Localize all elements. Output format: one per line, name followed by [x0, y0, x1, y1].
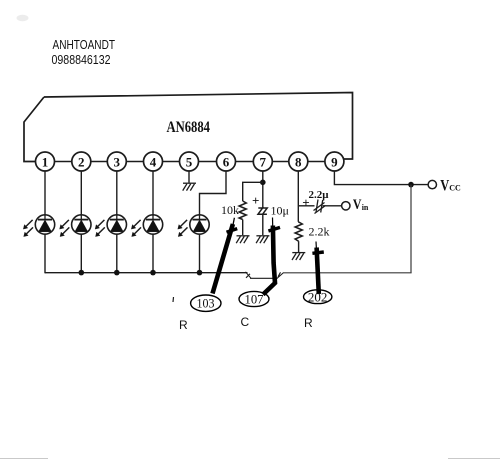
LED D4 emission arrows [131, 220, 141, 237]
LED D3 [107, 215, 126, 234]
ground under pin 5 [183, 183, 196, 190]
wire LED D1 to bus [44, 234, 46, 273]
node junction on pin7 wire [260, 180, 266, 186]
resistor R1 10k [239, 201, 246, 220]
svg-text:+: + [252, 193, 259, 208]
pin 8 [289, 152, 308, 171]
svg-text:103: 103 [197, 296, 215, 310]
pin 4 [144, 152, 163, 171]
svg-text:7: 7 [260, 155, 267, 170]
tick mark left of 103 [172, 297, 175, 302]
annotation arrow to 202 [312, 242, 323, 295]
svg-text:C: C [241, 315, 250, 329]
scan artifact line bottom right [448, 458, 500, 460]
pin 6 [217, 152, 236, 171]
IC U1 AN6884 outline [24, 93, 353, 162]
wire pin2 to LED D2 [80, 171, 82, 216]
svg-text:4: 4 [150, 155, 157, 170]
wire pin1 to LED D1 [44, 171, 46, 216]
wire LED D4 to bus [152, 234, 154, 272]
annotation ellipse 103 [191, 295, 221, 311]
svg-text:202: 202 [308, 291, 328, 305]
svg-text:+: + [302, 195, 309, 210]
ground under 10k [236, 236, 249, 243]
LED D1 [35, 215, 54, 234]
svg-text:in: in [362, 203, 369, 212]
label Vcc [440, 177, 461, 194]
LED D1 emission arrows [23, 220, 33, 237]
LED D5 [190, 215, 209, 234]
wire LED D5 to bus [199, 234, 201, 272]
svg-text:R: R [304, 316, 313, 330]
wire C2 to Vin terminal [323, 205, 342, 207]
svg-text:10μ: 10μ [271, 204, 289, 218]
LED D4 [143, 215, 162, 234]
wire bus jog left twist [246, 272, 252, 279]
junction dot bus LED2 [79, 270, 85, 276]
svg-text:R: R [179, 318, 188, 332]
wire pin6 to LED D5 [200, 171, 227, 216]
label Vin [353, 197, 369, 213]
svg-text:10k: 10k [221, 203, 239, 217]
annotation ellipse 202 [304, 290, 332, 304]
svg-text:5: 5 [186, 155, 193, 170]
wire bus middle dipped [250, 277, 278, 279]
wire Vcc junction down to bus [410, 185, 412, 273]
svg-text:ANHTOANDT: ANHTOANDT [53, 38, 116, 52]
svg-text:8: 8 [295, 155, 302, 170]
wire 2.2k to ground [298, 241, 300, 252]
wire pin4 to LED D4 [152, 171, 154, 216]
svg-text:AN6884: AN6884 [167, 119, 211, 136]
pin 1 [36, 152, 55, 171]
scan artifact line bottom left [0, 458, 48, 460]
svg-text:V: V [353, 197, 362, 213]
pin 5 [180, 152, 199, 171]
terminal Vcc [428, 180, 436, 188]
annotation arrow to 107 [263, 218, 280, 295]
wire bottom bus left [45, 272, 248, 274]
wire pin8 down [297, 171, 299, 222]
svg-text:0988846132: 0988846132 [52, 53, 111, 67]
wire node to C2 [298, 205, 314, 207]
wire pin9 to Vcc [334, 171, 428, 185]
wire pin7 down [262, 171, 264, 208]
resistor R2 2.2k [295, 222, 302, 241]
svg-text:2: 2 [78, 155, 85, 170]
scan smudge top left [17, 15, 29, 21]
terminal Vin [342, 202, 350, 210]
LED D2 [72, 215, 91, 234]
LED D2 emission arrows [60, 220, 70, 237]
annotation arrow to 103 [213, 218, 238, 294]
pin 7 [253, 152, 272, 171]
svg-text:3: 3 [114, 155, 121, 170]
capacitor C1 10u symbol [258, 208, 267, 214]
svg-text:2.2μ: 2.2μ [309, 189, 330, 201]
svg-text:CC: CC [449, 183, 461, 192]
wire pin5 to ground [188, 171, 190, 183]
ground under 2.2k [292, 253, 305, 260]
junction dot bus LED3 [114, 270, 120, 276]
wire cap C1 to ground [262, 215, 264, 236]
pin 3 [107, 152, 126, 171]
svg-text:107: 107 [245, 293, 264, 307]
LED D5 emission arrows [178, 220, 188, 237]
junction dot Vcc [408, 182, 414, 188]
wire pin3 to LED D3 [116, 171, 118, 216]
wire bus jog right twist [277, 272, 284, 278]
wire 10k to ground [242, 220, 244, 236]
svg-text:6: 6 [223, 155, 230, 170]
svg-text:2.2k: 2.2k [309, 225, 330, 239]
annotation ellipse 107 [239, 291, 269, 306]
wire bottom bus right [283, 272, 412, 274]
wire LED D3 to bus [116, 234, 118, 272]
svg-text:9: 9 [331, 155, 338, 170]
wire junction to 10k resistor [243, 182, 263, 201]
ground under C1 [256, 236, 269, 243]
capacitor C2 2.2u symbol [314, 200, 326, 214]
wire pin row connecting segments [54, 161, 325, 163]
pin 9 [325, 152, 344, 171]
wire LED D2 to bus [80, 234, 82, 272]
svg-text:1: 1 [42, 155, 49, 170]
LED D3 emission arrows [95, 220, 105, 237]
pin 2 [72, 152, 91, 171]
junction dot bus LED4 [150, 270, 156, 276]
junction dot bus LED5 [197, 270, 203, 276]
